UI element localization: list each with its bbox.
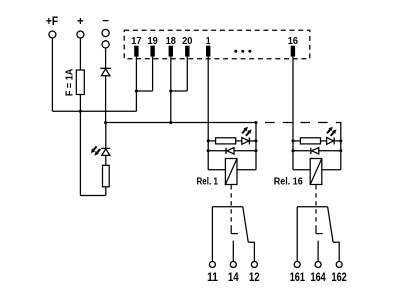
wire common terminal 11	[211, 207, 213, 262]
wire Rel.16 rail right	[322, 169, 341, 171]
wire terminal 18 down to minus bus	[170, 57, 172, 123]
svg-text:F = 1A: F = 1A	[63, 68, 75, 96]
wire minus to diode	[105, 48, 107, 68]
bus minus horizontal	[106, 122, 256, 124]
svg-text:19: 19	[147, 35, 157, 47]
relay coil Rel. 1	[225, 159, 237, 185]
mechanical link Rel.16	[315, 185, 317, 228]
actuator Rel.1 vertical	[230, 228, 232, 233]
terminal minus lower	[102, 41, 109, 48]
terminal +	[77, 31, 84, 38]
wire common top bar Rel.1	[212, 206, 242, 208]
terminal pin 1	[206, 46, 210, 57]
wire Rel.1 resistor to LED	[236, 140, 242, 142]
LED Rel.1 status	[242, 138, 249, 145]
ellipsis dot 1	[234, 50, 237, 53]
svg-text:+F: +F	[46, 16, 58, 28]
resistor R1 body	[103, 165, 110, 187]
wire relay 16 return vertical	[340, 123, 342, 170]
wire terminal 17 down to +F bus	[135, 57, 137, 112]
diode D1 reverse protection	[100, 67, 111, 69]
resistor Rel.16 series	[300, 138, 320, 144]
junction Rel.16 row2 right	[339, 149, 342, 152]
wire common terminal 161	[296, 207, 298, 262]
LED Rel.16 status	[327, 138, 334, 145]
svg-text:162: 162	[332, 270, 347, 284]
mechanical link Rel.1	[230, 185, 232, 228]
terminal pin 18	[169, 46, 173, 57]
wire +F down	[51, 38, 53, 111]
wire fuse output down	[79, 95, 81, 196]
LED D2 cathode bar	[101, 147, 110, 149]
wire Rel.1 rail left	[208, 169, 225, 171]
junction Rel.1 row2 left	[207, 149, 210, 152]
svg-text:+: +	[77, 16, 84, 28]
terminal 14	[230, 262, 236, 268]
junction Rel.16 row1 right	[339, 139, 342, 142]
junction minus bus terminal 18/20	[169, 121, 172, 124]
fuse F=1A body	[76, 70, 84, 95]
wire NC terminal 12	[248, 242, 254, 261]
svg-text:14: 14	[228, 270, 239, 284]
wire terminal 20 down	[186, 57, 188, 91]
wire bottom horizontal to resistor	[80, 195, 105, 197]
junction Rel.16 row2 left	[291, 149, 294, 152]
wire Rel.1 rail right	[237, 169, 256, 171]
wire Rel.1 to resistor	[208, 140, 215, 142]
svg-text:20: 20	[182, 35, 192, 47]
contact lever Rel.16	[328, 207, 334, 243]
junction 17/19	[135, 89, 138, 92]
wire terminal 16 input down	[292, 57, 294, 170]
svg-text:1: 1	[206, 35, 211, 47]
junction 18/20	[169, 89, 172, 92]
wire 19 to 17	[136, 90, 152, 92]
wire Rel.1 LED to return	[249, 140, 256, 142]
svg-text:−: −	[102, 16, 109, 28]
wire NO terminal 14	[232, 241, 234, 262]
terminal pin 19	[150, 46, 154, 57]
junction +F/fuse	[79, 110, 82, 113]
diode Rel.16 freewheeling	[293, 150, 341, 152]
LED D2 power indicator	[102, 149, 110, 156]
wire diode to minus bus	[105, 76, 107, 123]
wire Rel.16 rail left	[293, 169, 310, 171]
wire up to resistor	[105, 187, 107, 196]
terminal pin 17	[134, 46, 138, 57]
wire NC terminal 162	[333, 242, 339, 261]
terminal minus upper	[102, 29, 109, 36]
bus minus dashed continuation	[265, 122, 342, 124]
wire terminal 19 down	[152, 57, 154, 91]
wire LED to minus bus	[105, 123, 107, 149]
svg-text:164: 164	[311, 270, 326, 284]
wire + to fuse	[79, 38, 81, 70]
LED Rel.1 light arrows	[242, 130, 245, 133]
wire NO terminal 164	[317, 241, 319, 262]
contact lever Rel.1	[243, 207, 249, 243]
wire common top bar Rel.16	[297, 206, 327, 208]
svg-text:161: 161	[290, 270, 305, 284]
wire Rel.16 to resistor	[293, 140, 300, 142]
svg-text:Rel. 1: Rel. 1	[197, 176, 219, 188]
LED Rel.16 light arrows	[327, 130, 330, 133]
junction Rel.1 row1 left	[207, 139, 210, 142]
resistor Rel.1 series	[216, 138, 236, 144]
svg-text:Rel. 16: Rel. 16	[274, 176, 303, 188]
svg-text:11: 11	[207, 270, 218, 284]
actuator Rel.16 vertical	[315, 228, 317, 233]
wire Rel.16 resistor to LED	[321, 140, 327, 142]
connector dashed outline	[124, 30, 310, 59]
junction minus bus left	[104, 121, 107, 124]
wire 20 to 18	[171, 90, 188, 92]
relay coil Rel. 16	[310, 159, 322, 185]
wire terminal 1 input down	[207, 57, 209, 170]
junction Rel.1 row2 right	[254, 149, 257, 152]
terminal pin 20	[185, 46, 189, 57]
terminal 12	[251, 262, 257, 268]
ellipsis dot 3	[248, 50, 251, 53]
terminal 162	[336, 262, 342, 268]
svg-text:18: 18	[166, 35, 176, 47]
svg-text:17: 17	[131, 35, 141, 47]
wire Rel.16 LED to return	[334, 140, 341, 142]
bus +F horizontal	[52, 110, 136, 112]
terminal pin 16	[291, 46, 295, 57]
actuator Rel.16 horizontal	[316, 233, 323, 235]
terminal 11	[209, 262, 215, 268]
actuator Rel.1 horizontal	[231, 233, 238, 235]
diode Rel.1 freewheeling	[208, 150, 256, 152]
svg-text:12: 12	[249, 270, 260, 284]
terminal 164	[315, 262, 321, 268]
junction Rel.16 row1 left	[291, 139, 294, 142]
LED D2 light arrows	[94, 146, 97, 149]
terminal +F	[49, 31, 56, 38]
wire resistor to LED	[105, 155, 107, 165]
junction minus bus relay 1	[254, 121, 257, 124]
terminal 161	[294, 262, 300, 268]
ellipsis dot 2	[241, 50, 244, 53]
wire relay 1 return vertical	[255, 123, 257, 170]
svg-text:16: 16	[288, 35, 298, 47]
junction Rel.1 row1 right	[254, 139, 257, 142]
